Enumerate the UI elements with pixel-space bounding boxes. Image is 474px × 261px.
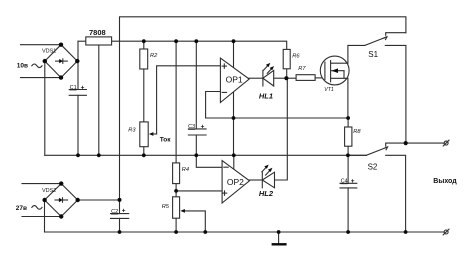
svg-text:+: + (201, 124, 205, 131)
svg-text:S1: S1 (368, 50, 378, 59)
label R4 (182, 167, 189, 173)
label 7808 (89, 28, 106, 37)
wire VDS1 left node to ground rail (44, 61, 46, 155)
label S1 (368, 50, 378, 59)
svg-text:C4: C4 (341, 179, 348, 185)
label C1 (70, 84, 85, 91)
svg-text:VDS1: VDS1 (42, 49, 56, 55)
node 27V junction (118, 198, 122, 202)
label HL1 (259, 91, 273, 100)
svg-text:OP1: OP1 (226, 75, 243, 85)
wire VDS2 right node to 27V vertical (78, 199, 120, 201)
wire node to ground rail (233, 118, 235, 155)
wire AC input lower to VDS2 (22, 216, 61, 218)
label R2 (150, 53, 158, 59)
svg-text:R8: R8 (353, 129, 361, 135)
wire R6 bottom lead (286, 69, 288, 78)
wire VDS2 left node to bottom rail (44, 200, 46, 232)
wire R3 bottom to ground rail (143, 147, 145, 156)
resistor R4 (173, 163, 180, 184)
svg-text:S2: S2 (368, 163, 378, 172)
wire AC input upper to VDS2 (22, 183, 61, 185)
label C4 (341, 178, 355, 185)
node dots on ground rail (76, 153, 350, 157)
node HL1 R6 R7 junction (284, 76, 288, 80)
wire MOSFET source down to feedback node (347, 78, 349, 118)
resistor R5 potentiometer (173, 197, 185, 218)
terminal output plus (443, 140, 449, 146)
wire C4 top lead (347, 155, 349, 183)
wire C4 bottom to bottom rail (347, 188, 349, 232)
wire R8 top lead (347, 118, 349, 127)
wire 7808 input (78, 40, 86, 42)
wire R5 wiper to bottom rail (184, 211, 205, 232)
node dots feedback line (232, 116, 350, 120)
op-amp OP2 (222, 161, 249, 203)
wire OP1 minus input loop (206, 92, 221, 119)
svg-text:C2: C2 (111, 209, 118, 215)
wire OP2 top supply pin (233, 155, 235, 169)
wire R5 bottom to bottom rail (175, 218, 177, 232)
wire output top line (386, 143, 445, 146)
wire MOSFET drain to S1 pivot (348, 45, 365, 63)
wire OP2 output to HL2 (249, 179, 262, 181)
label R8 (353, 129, 361, 135)
wire mid ground rail (45, 154, 367, 156)
label VDS2 (42, 188, 56, 194)
bridge rectifier VDS2 (42, 181, 80, 218)
LED HL1 (263, 63, 274, 86)
label OP2 (227, 177, 244, 187)
label S2 (368, 163, 378, 172)
svg-text:Ток: Ток (160, 137, 172, 144)
label R3 (128, 128, 136, 134)
label 10v AC (17, 63, 42, 70)
wire R2 top lead (143, 41, 145, 49)
svg-text:VT1: VT1 (324, 87, 334, 93)
svg-text:R7: R7 (298, 66, 306, 72)
wire feedback line to MOSFET source (206, 117, 349, 119)
wire OP1 bottom pin to feedback node (233, 93, 235, 118)
wire OP1 positive supply pin (233, 41, 235, 68)
resistor R7 (296, 75, 315, 81)
label Vyhod (433, 178, 457, 185)
wire R4 bottom to R5 top (175, 184, 177, 197)
label R7 (298, 66, 306, 72)
op-amp OP1 (220, 58, 249, 102)
svg-text:+: + (122, 208, 126, 215)
transistor VT1 MOSFET (320, 56, 349, 85)
svg-text:HL2: HL2 (259, 189, 274, 198)
resistor R2 (140, 49, 148, 69)
svg-text:C1: C1 (70, 85, 77, 91)
capacitor C2 (111, 214, 129, 219)
node output junction (404, 141, 408, 145)
label VDS1 (42, 49, 56, 55)
wire C3 bottom to ground rail (195, 135, 197, 155)
node R4 R5 junction (174, 189, 178, 193)
switch S2 (348, 147, 406, 232)
svg-text:+: + (351, 178, 355, 185)
wire 7808 ground pin (98, 45, 100, 155)
wire 27V vertical to C2 top (119, 200, 121, 214)
resistor R6 (283, 49, 290, 68)
svg-text:OP2: OP2 (227, 177, 244, 187)
wire R3 wiper to OP1 plus input (152, 66, 220, 134)
wire HL2 anode riser to node (275, 78, 288, 180)
svg-text:R2: R2 (150, 53, 158, 59)
wire ground rail to OP2 minus input (196, 155, 222, 167)
wire C2 bottom to bottom rail (119, 218, 121, 232)
terminal output minus (443, 229, 449, 235)
label 27v AC (16, 205, 42, 212)
node dots on 8V rail (142, 39, 236, 43)
svg-text:10в: 10в (17, 63, 28, 70)
label C3 (188, 124, 205, 131)
capacitor C1 (69, 90, 86, 96)
label OP1 (226, 75, 243, 85)
wire C1 bottom to ground rail (77, 95, 79, 155)
node dots on bottom rail (118, 230, 408, 234)
label Tok (160, 137, 172, 144)
ground (272, 232, 287, 244)
svg-text:VDS2: VDS2 (42, 188, 56, 194)
wire HL1 anode to node (274, 77, 287, 79)
svg-text:R3: R3 (128, 128, 136, 134)
label R5 (162, 204, 170, 210)
wire OP1 output to HL1 (249, 77, 263, 79)
wire R7 to MOSFET gate (315, 77, 325, 79)
wire top 27V rail (120, 17, 406, 200)
resistor R8 (345, 127, 352, 146)
capacitor C4 (340, 183, 357, 188)
wire VDS1 right node to 7808 input and C1 (77, 41, 79, 89)
wire node to R7 (286, 77, 296, 79)
wire 8V rail from 7808 output (112, 41, 287, 49)
resistor R3 potentiometer (140, 122, 157, 147)
label HL2 (259, 189, 274, 198)
svg-text:Выход: Выход (433, 178, 457, 185)
wire R8 bottom lead (347, 146, 349, 155)
svg-text:+: + (81, 84, 85, 91)
svg-text:R4: R4 (182, 167, 189, 173)
wire R2 bottom to R3 top (143, 69, 145, 122)
wire AC input lower to VDS1 (21, 77, 62, 79)
LED HL2 (262, 165, 275, 188)
wire 8V rail to R4 (175, 41, 177, 163)
label VT1 (324, 87, 334, 93)
svg-text:7808: 7808 (89, 28, 106, 37)
capacitor C3 (188, 129, 206, 135)
svg-text:R5: R5 (162, 204, 170, 210)
wire 8V rail to C3 top (195, 41, 197, 129)
switch S1 (365, 33, 406, 143)
wire R4 R5 junction to OP2 plus input (176, 190, 222, 192)
wire AC input upper to VDS1 (21, 44, 62, 46)
svg-text:HL1: HL1 (259, 91, 273, 100)
wire bottom rail (45, 231, 445, 233)
label C2 (111, 208, 126, 215)
svg-text:27в: 27в (16, 205, 27, 212)
svg-text:R6: R6 (292, 54, 300, 60)
svg-text:C3: C3 (188, 124, 195, 130)
label R6 (292, 54, 300, 60)
bridge rectifier VDS1 (43, 43, 80, 80)
regulator 7808 (86, 37, 112, 45)
